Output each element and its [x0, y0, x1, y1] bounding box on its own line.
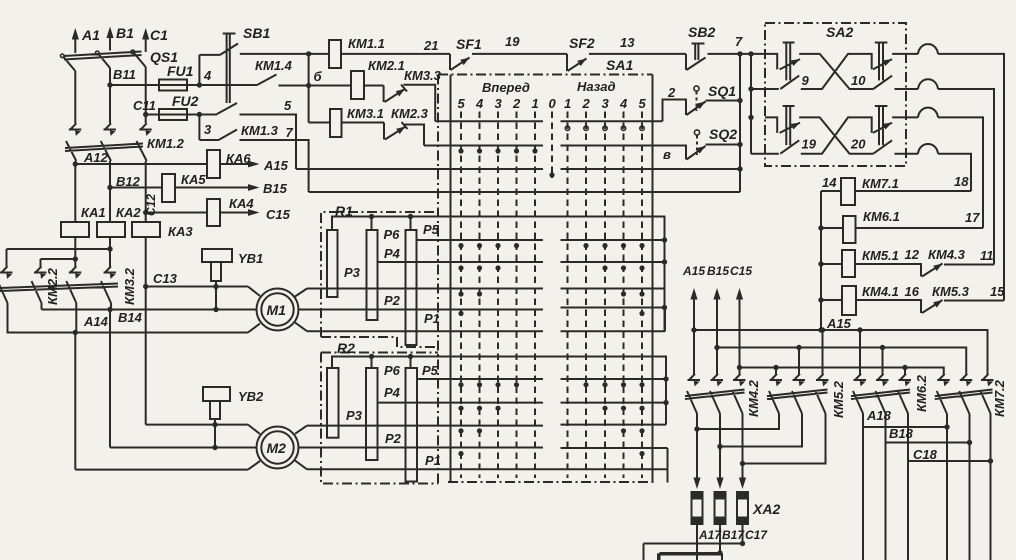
svg-text:A1: A1 — [81, 27, 100, 43]
svg-text:КМ7.2: КМ7.2 — [992, 379, 1007, 417]
svg-text:А15: А15 — [682, 264, 705, 278]
svg-text:А17: А17 — [698, 528, 722, 542]
svg-text:С13: С13 — [153, 271, 178, 286]
svg-text:5: 5 — [458, 96, 466, 111]
svg-text:7: 7 — [286, 125, 294, 140]
svg-text:КА4: КА4 — [229, 196, 254, 211]
svg-text:11: 11 — [980, 248, 994, 263]
svg-text:КМ4.3: КМ4.3 — [928, 247, 966, 262]
svg-text:С15: С15 — [730, 264, 752, 278]
svg-text:0: 0 — [549, 96, 557, 111]
svg-text:В14: В14 — [118, 310, 143, 325]
svg-text:КМ1.1: КМ1.1 — [348, 36, 385, 51]
svg-text:КА3: КА3 — [168, 224, 193, 239]
svg-text:С17: С17 — [745, 528, 768, 542]
svg-text:21: 21 — [423, 38, 438, 53]
svg-text:2: 2 — [582, 96, 591, 111]
svg-text:17: 17 — [965, 210, 980, 225]
svg-text:Р3: Р3 — [346, 408, 363, 423]
svg-text:16: 16 — [905, 284, 920, 299]
svg-text:1: 1 — [564, 96, 571, 111]
svg-text:Р3: Р3 — [344, 265, 361, 280]
svg-text:4: 4 — [619, 96, 628, 111]
svg-text:С12: С12 — [144, 194, 158, 216]
svg-text:КА6: КА6 — [226, 151, 251, 166]
svg-text:5: 5 — [639, 96, 647, 111]
svg-text:3: 3 — [204, 122, 212, 137]
svg-text:В15: В15 — [707, 264, 729, 278]
svg-text:КМ1.2: КМ1.2 — [147, 136, 185, 151]
svg-text:КМ3.1: КМ3.1 — [347, 106, 384, 121]
svg-text:14: 14 — [822, 175, 837, 190]
svg-text:C11: C11 — [133, 98, 156, 113]
svg-text:С15: С15 — [266, 207, 291, 222]
svg-text:А14: А14 — [83, 314, 109, 329]
svg-text:КМ7.1: КМ7.1 — [862, 176, 899, 191]
svg-text:Р6: Р6 — [384, 363, 401, 378]
svg-text:19: 19 — [505, 34, 520, 49]
svg-text:ХА2: ХА2 — [752, 501, 780, 517]
svg-text:В12: В12 — [116, 174, 141, 189]
svg-text:5: 5 — [284, 98, 292, 113]
svg-text:1: 1 — [532, 96, 539, 111]
svg-text:SQ2: SQ2 — [709, 126, 737, 142]
svg-text:YB2: YB2 — [238, 389, 264, 404]
svg-text:R1: R1 — [335, 203, 353, 219]
svg-text:4: 4 — [475, 96, 484, 111]
svg-text:SQ1: SQ1 — [708, 83, 736, 99]
svg-text:SF1: SF1 — [456, 36, 482, 52]
svg-text:Р5: Р5 — [422, 363, 439, 378]
svg-text:7: 7 — [735, 34, 743, 49]
svg-text:в: в — [663, 147, 671, 162]
svg-text:Р4: Р4 — [384, 385, 401, 400]
svg-text:3: 3 — [495, 96, 503, 111]
svg-text:КМ6.1: КМ6.1 — [863, 209, 900, 224]
svg-text:FU2: FU2 — [172, 93, 199, 109]
svg-text:Р1: Р1 — [424, 311, 440, 326]
svg-text:КА5: КА5 — [181, 172, 206, 187]
svg-text:КА1: КА1 — [81, 205, 106, 220]
svg-text:Назад: Назад — [577, 79, 616, 94]
svg-text:C1: C1 — [150, 27, 168, 43]
svg-text:R2: R2 — [337, 340, 355, 356]
svg-text:3: 3 — [602, 96, 610, 111]
svg-text:М1: М1 — [267, 302, 287, 318]
svg-text:А12: А12 — [83, 150, 109, 165]
svg-text:КМ5.3: КМ5.3 — [932, 284, 970, 299]
svg-text:КМ3.3: КМ3.3 — [404, 68, 442, 83]
svg-text:С18: С18 — [913, 447, 938, 462]
svg-text:9: 9 — [802, 73, 810, 88]
svg-text:B11: B11 — [113, 67, 136, 82]
svg-text:2: 2 — [667, 85, 676, 100]
svg-text:КМ5.1: КМ5.1 — [862, 248, 899, 263]
svg-text:15: 15 — [990, 284, 1005, 299]
svg-text:Р4: Р4 — [384, 246, 401, 261]
svg-text:В15: В15 — [263, 181, 288, 196]
svg-text:КМ2.3: КМ2.3 — [391, 106, 429, 121]
svg-text:2: 2 — [512, 96, 521, 111]
svg-text:10: 10 — [851, 73, 866, 88]
svg-text:YB1: YB1 — [238, 251, 263, 266]
svg-text:КМ2.1: КМ2.1 — [368, 58, 405, 73]
svg-text:B1: B1 — [116, 25, 134, 41]
svg-text:КМ3.2: КМ3.2 — [122, 267, 137, 305]
svg-text:Р2: Р2 — [384, 293, 401, 308]
svg-text:КМ5.2: КМ5.2 — [831, 380, 846, 418]
svg-text:SB2: SB2 — [688, 24, 715, 40]
svg-text:SA1: SA1 — [606, 57, 633, 73]
svg-text:КА2: КА2 — [116, 205, 141, 220]
svg-text:В17: В17 — [722, 528, 745, 542]
svg-text:13: 13 — [620, 35, 635, 50]
svg-text:SF2: SF2 — [569, 35, 595, 51]
svg-text:А18: А18 — [866, 408, 892, 423]
svg-text:SB1: SB1 — [243, 25, 270, 41]
svg-text:А15: А15 — [826, 316, 852, 331]
svg-text:20: 20 — [850, 136, 866, 151]
svg-text:12: 12 — [905, 247, 920, 262]
svg-text:4: 4 — [203, 68, 212, 83]
svg-text:Р6: Р6 — [384, 227, 401, 242]
svg-text:КМ4.1: КМ4.1 — [862, 284, 899, 299]
svg-text:б: б — [314, 69, 323, 84]
svg-text:КМ4.2: КМ4.2 — [746, 379, 761, 417]
svg-text:КМ6.2: КМ6.2 — [914, 374, 929, 412]
svg-text:FU1: FU1 — [167, 63, 194, 79]
svg-text:18: 18 — [954, 174, 969, 189]
svg-text:Р1: Р1 — [425, 453, 441, 468]
svg-text:КМ2.2: КМ2.2 — [45, 267, 60, 305]
svg-text:Р5: Р5 — [423, 222, 440, 237]
svg-text:SA2: SA2 — [826, 24, 853, 40]
svg-text:Р2: Р2 — [385, 431, 402, 446]
svg-text:М2: М2 — [267, 440, 287, 456]
svg-text:А15: А15 — [263, 158, 289, 173]
svg-text:КМ1.3: КМ1.3 — [241, 123, 279, 138]
svg-text:Вперед: Вперед — [482, 80, 530, 95]
svg-text:В18: В18 — [889, 426, 914, 441]
svg-text:19: 19 — [802, 136, 817, 151]
svg-text:КМ1.4: КМ1.4 — [255, 58, 293, 73]
